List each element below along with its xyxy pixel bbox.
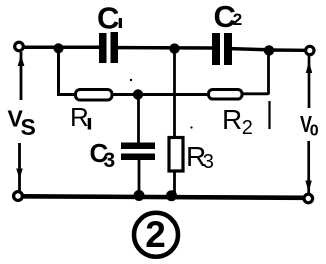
svg-text:3: 3 bbox=[104, 149, 116, 172]
svg-text:R: R bbox=[70, 102, 89, 132]
svg-text:C: C bbox=[97, 0, 119, 35]
svg-text:R: R bbox=[222, 104, 242, 135]
svg-text:0: 0 bbox=[310, 122, 319, 139]
svg-text:S: S bbox=[21, 114, 36, 140]
svg-text:2: 2 bbox=[233, 10, 242, 29]
svg-text:2: 2 bbox=[145, 214, 166, 255]
svg-text:3: 3 bbox=[203, 151, 214, 173]
svg-text:2: 2 bbox=[242, 117, 253, 139]
